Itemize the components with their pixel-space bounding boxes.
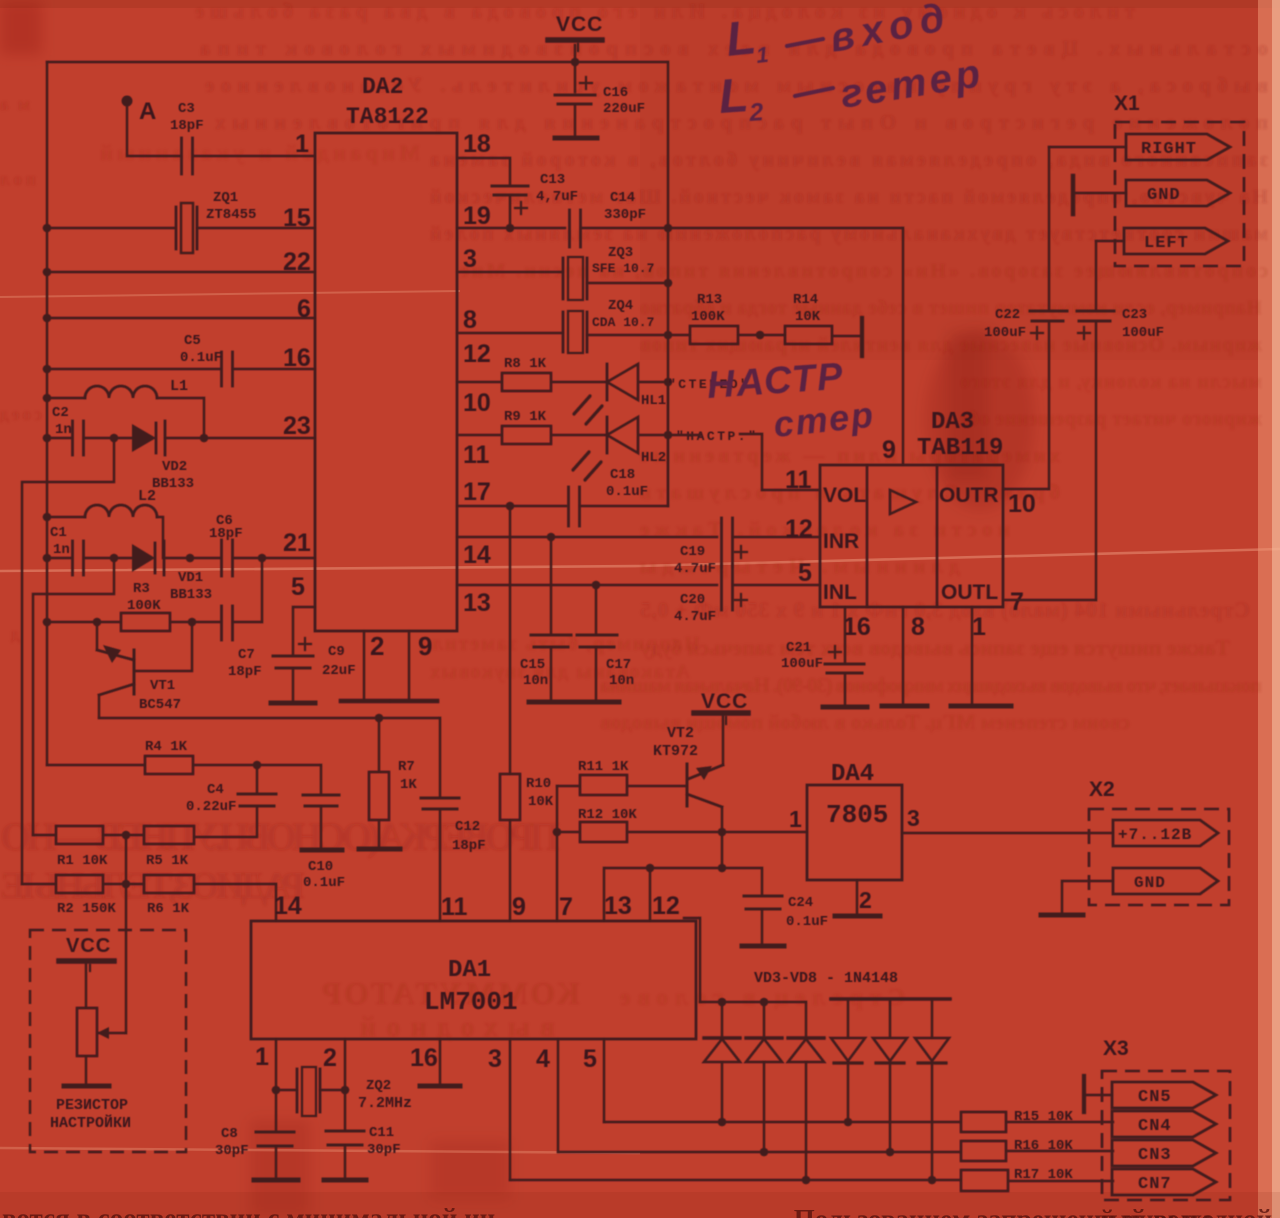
- svg-text:OUTR: OUTR: [939, 484, 999, 507]
- svg-text:мысли на колонку, и для этого: мысли на колонку, и для этого: [960, 371, 1262, 393]
- svg-text:100K: 100K: [127, 598, 161, 614]
- svg-text:1n: 1n: [53, 542, 70, 558]
- svg-text:17: 17: [463, 478, 491, 506]
- svg-text:C20: C20: [680, 592, 705, 608]
- svg-text:15: 15: [283, 204, 311, 232]
- svg-text:CN4: CN4: [1138, 1117, 1172, 1136]
- svg-text:INR: INR: [823, 530, 859, 553]
- svg-text:9: 9: [418, 631, 432, 661]
- svg-text:4.7uF: 4.7uF: [674, 609, 716, 625]
- svg-text:1: 1: [255, 1043, 269, 1071]
- svg-text:показывает, что выводов выходя: показывает, что выводов выходящих микроф…: [600, 673, 1263, 697]
- svg-text:VCC: VCC: [556, 13, 603, 36]
- svg-text:16: 16: [410, 1044, 438, 1072]
- svg-text:РЕЗИСТОР: РЕЗИСТОР: [56, 1097, 128, 1114]
- svg-text:7805: 7805: [826, 800, 888, 830]
- svg-text:R14: R14: [793, 292, 818, 308]
- svg-text:VD1: VD1: [178, 570, 203, 586]
- svg-text:TAB119: TAB119: [917, 435, 1003, 462]
- svg-text:18pF: 18pF: [170, 118, 204, 134]
- svg-text:C14: C14: [610, 190, 635, 206]
- svg-text:VCC: VCC: [66, 935, 111, 957]
- svg-text:ZQ3: ZQ3: [608, 245, 633, 261]
- svg-text:22: 22: [283, 248, 311, 276]
- svg-text:330pF: 330pF: [604, 207, 646, 223]
- svg-text:C11: C11: [369, 1125, 394, 1141]
- svg-text:5: 5: [291, 573, 305, 601]
- svg-text:R4 1K: R4 1K: [145, 739, 188, 755]
- svg-text:пол: пол: [0, 169, 36, 189]
- svg-text:C1: C1: [50, 525, 67, 541]
- svg-text:BC547: BC547: [139, 697, 181, 713]
- svg-text:R15 10K: R15 10K: [1014, 1109, 1073, 1125]
- svg-text:0.22uF: 0.22uF: [186, 799, 236, 815]
- svg-text:19: 19: [463, 202, 491, 230]
- svg-text:0.1uF: 0.1uF: [180, 350, 222, 366]
- svg-text:14: 14: [463, 541, 491, 569]
- svg-text:DA2: DA2: [362, 74, 403, 100]
- svg-text:НАСТРОЙКИ: НАСТРОЙКИ: [50, 1114, 131, 1132]
- svg-text:R1 10K: R1 10K: [57, 853, 108, 869]
- svg-text:Атакованы для звуковых: Атакованы для звуковых: [430, 661, 690, 683]
- svg-text:14: 14: [274, 892, 302, 920]
- svg-text:100uF: 100uF: [1122, 325, 1164, 341]
- svg-text:сопротивляющее зазоров. «Ни» с: сопротивляющее зазоров. «Ни» сопротивлен…: [460, 260, 1268, 282]
- svg-text:5: 5: [583, 1045, 597, 1073]
- svg-text:GND: GND: [1147, 186, 1181, 205]
- svg-text:1: 1: [972, 613, 986, 641]
- svg-text:ZQ1: ZQ1: [213, 190, 238, 206]
- svg-text:DA4: DA4: [831, 761, 874, 788]
- svg-text:2: 2: [323, 1044, 337, 1072]
- svg-text:10K: 10K: [795, 309, 821, 325]
- svg-text:11: 11: [441, 893, 468, 921]
- svg-text:LM7001: LM7001: [424, 987, 518, 1017]
- svg-text:C21: C21: [786, 640, 811, 656]
- svg-text:7: 7: [559, 893, 573, 921]
- svg-text:д: д: [11, 624, 20, 644]
- svg-text:C12: C12: [455, 819, 480, 835]
- svg-text:4.7uF: 4.7uF: [674, 561, 716, 577]
- svg-text:HL1: HL1: [641, 393, 666, 409]
- svg-text:LEFT: LEFT: [1144, 234, 1189, 253]
- svg-text:VT1: VT1: [150, 678, 175, 694]
- svg-text:C24: C24: [788, 895, 813, 911]
- svg-text:C2: C2: [52, 405, 69, 421]
- svg-text:23: 23: [283, 412, 311, 440]
- svg-text:18pF: 18pF: [228, 664, 262, 680]
- svg-text:8: 8: [463, 306, 477, 334]
- svg-text:ZQ2: ZQ2: [366, 1078, 391, 1094]
- svg-text:11: 11: [463, 441, 490, 469]
- svg-text:21: 21: [283, 529, 311, 557]
- svg-text:30pF: 30pF: [367, 1142, 401, 1158]
- svg-text:VOL: VOL: [823, 484, 866, 507]
- svg-text:3: 3: [488, 1045, 502, 1073]
- svg-text:10n: 10n: [609, 673, 634, 689]
- svg-text:7: 7: [1010, 588, 1024, 616]
- svg-text:L2: L2: [138, 488, 156, 505]
- svg-text:10: 10: [463, 389, 491, 417]
- svg-text:DA1: DA1: [448, 957, 491, 984]
- svg-text:0.1uF: 0.1uF: [786, 914, 828, 930]
- svg-text:CN7: CN7: [1138, 1175, 1172, 1194]
- svg-text:C9: C9: [328, 644, 345, 660]
- svg-text:TA8122: TA8122: [346, 104, 429, 130]
- svg-text:X1: X1: [1114, 92, 1140, 115]
- svg-text:BB133: BB133: [152, 476, 194, 492]
- svg-text:A: A: [139, 98, 156, 125]
- svg-text:2: 2: [370, 631, 384, 661]
- svg-text:й выводы: й выводы: [1100, 1206, 1211, 1218]
- svg-text:10: 10: [1008, 490, 1036, 518]
- svg-text:R5 1K: R5 1K: [146, 853, 189, 869]
- svg-text:C5: C5: [184, 333, 201, 349]
- svg-text:16: 16: [283, 344, 311, 372]
- svg-text:C22: C22: [995, 307, 1020, 323]
- svg-text:RIGHT: RIGHT: [1141, 140, 1197, 159]
- svg-text:C8: C8: [221, 1126, 238, 1142]
- svg-text:CN3: CN3: [1138, 1146, 1172, 1165]
- svg-text:C13: C13: [540, 172, 565, 188]
- svg-text:0.1uF: 0.1uF: [606, 484, 648, 500]
- svg-text:1: 1: [755, 42, 770, 68]
- svg-text:Также пишутся еще запись вывод: Также пишутся еще запись выводов всех те…: [640, 635, 1230, 660]
- svg-text:C19: C19: [680, 544, 705, 560]
- svg-text:2: 2: [859, 887, 872, 913]
- svg-text:9: 9: [882, 436, 896, 464]
- svg-text:100uF: 100uF: [781, 656, 823, 672]
- svg-text:R3: R3: [133, 581, 150, 597]
- svg-text:ZQ4: ZQ4: [608, 298, 633, 314]
- svg-text:жирного читает разрешение обе: жирного читает разрешение обе: [960, 408, 1262, 430]
- svg-text:VCC: VCC: [701, 690, 748, 713]
- svg-text:GND: GND: [1134, 874, 1166, 892]
- svg-text:VD2: VD2: [162, 459, 187, 475]
- svg-text:220uF: 220uF: [603, 101, 645, 117]
- svg-text:3: 3: [907, 805, 920, 831]
- svg-text:R9 1K: R9 1K: [504, 409, 547, 425]
- svg-text:4,7uF: 4,7uF: [536, 189, 578, 205]
- svg-text:SFE 10.7: SFE 10.7: [592, 261, 654, 276]
- svg-text:22uF: 22uF: [322, 663, 356, 679]
- svg-text:10K: 10K: [528, 794, 554, 810]
- svg-text:1: 1: [295, 130, 309, 158]
- svg-text:L: L: [717, 69, 750, 124]
- svg-text:7.2MHz: 7.2MHz: [358, 1095, 412, 1112]
- svg-text:C17: C17: [606, 657, 631, 673]
- svg-text:C16: C16: [603, 85, 628, 101]
- svg-text:100K: 100K: [691, 309, 725, 325]
- svg-text:C18: C18: [610, 467, 635, 483]
- svg-text:C23: C23: [1122, 307, 1147, 323]
- svg-text:R6 1K: R6 1K: [147, 901, 190, 917]
- svg-text:Например, если коммутатор пише: Например, если коммутатор пишет в себе д…: [640, 297, 1262, 319]
- svg-text:Мирандой и указанный: Мирандой и указанный: [100, 140, 420, 165]
- svg-text:6: 6: [297, 295, 311, 323]
- svg-text:8: 8: [911, 613, 925, 641]
- svg-text:CN5: CN5: [1138, 1088, 1172, 1107]
- svg-text:"НАСТР.": "НАСТР.": [676, 429, 758, 444]
- svg-text:R7: R7: [398, 759, 415, 775]
- svg-text:DA3: DA3: [931, 409, 974, 436]
- svg-text:10n: 10n: [523, 673, 548, 689]
- svg-text:VD3-VD8 - 1N4148: VD3-VD8 - 1N4148: [754, 970, 898, 987]
- svg-text:X2: X2: [1089, 778, 1115, 801]
- svg-text:OUTL: OUTL: [941, 581, 998, 604]
- svg-text:2: 2: [747, 98, 764, 127]
- svg-text:100uF: 100uF: [984, 325, 1026, 341]
- svg-text:R11 1K: R11 1K: [578, 759, 629, 775]
- svg-text:R16 10K: R16 10K: [1014, 1138, 1073, 1154]
- svg-text:16: 16: [843, 613, 871, 641]
- svg-text:R10: R10: [526, 776, 551, 792]
- svg-text:C7: C7: [238, 647, 255, 663]
- svg-text:C3: C3: [178, 101, 195, 117]
- svg-text:9: 9: [512, 893, 526, 921]
- svg-text:R8 1K: R8 1K: [504, 356, 547, 372]
- svg-text:5: 5: [798, 559, 812, 587]
- svg-text:11: 11: [785, 466, 812, 494]
- svg-text:+7..12В: +7..12В: [1118, 826, 1192, 844]
- svg-text:VT2: VT2: [667, 725, 694, 742]
- svg-text:R17 10K: R17 10K: [1014, 1167, 1073, 1183]
- svg-text:BB133: BB133: [170, 587, 212, 603]
- svg-text:INL: INL: [823, 581, 857, 604]
- svg-text:R13: R13: [697, 292, 722, 308]
- svg-text:1: 1: [789, 806, 802, 832]
- svg-text:L: L: [724, 11, 759, 67]
- svg-text:L1: L1: [170, 378, 188, 395]
- svg-text:12: 12: [785, 515, 813, 543]
- svg-text:12: 12: [652, 892, 680, 920]
- svg-text:X3: X3: [1103, 1037, 1129, 1060]
- svg-text:C4: C4: [207, 782, 224, 798]
- svg-text:12: 12: [463, 340, 491, 368]
- svg-text:R2 150K: R2 150K: [57, 901, 116, 917]
- svg-text:18pF: 18pF: [209, 526, 243, 542]
- svg-text:13: 13: [463, 589, 491, 617]
- svg-text:18: 18: [463, 130, 491, 158]
- svg-text:R12 10K: R12 10K: [578, 807, 637, 823]
- svg-text:C10: C10: [308, 859, 333, 875]
- svg-text:C15: C15: [520, 657, 545, 673]
- svg-text:30pF: 30pF: [215, 1143, 249, 1159]
- svg-text:машин соответствует двухканаль: машин соответствует двухканальному распо…: [430, 223, 1268, 245]
- svg-text:1K: 1K: [400, 777, 417, 793]
- svg-text:3: 3: [463, 245, 477, 273]
- svg-text:4: 4: [536, 1045, 550, 1073]
- svg-text:18pF: 18pF: [452, 838, 486, 854]
- svg-text:13: 13: [604, 892, 632, 920]
- svg-text:KT972: KT972: [653, 743, 698, 760]
- svg-text:ZT8455: ZT8455: [206, 207, 256, 223]
- svg-text:HL2: HL2: [641, 450, 666, 466]
- svg-text:1n: 1n: [55, 422, 72, 438]
- svg-text:вотся в соответствии с минимал: вотся в соответствии с минимальной ин: [2, 1203, 495, 1218]
- svg-text:CDA 10.7: CDA 10.7: [592, 315, 654, 330]
- svg-text:0.1uF: 0.1uF: [303, 875, 345, 891]
